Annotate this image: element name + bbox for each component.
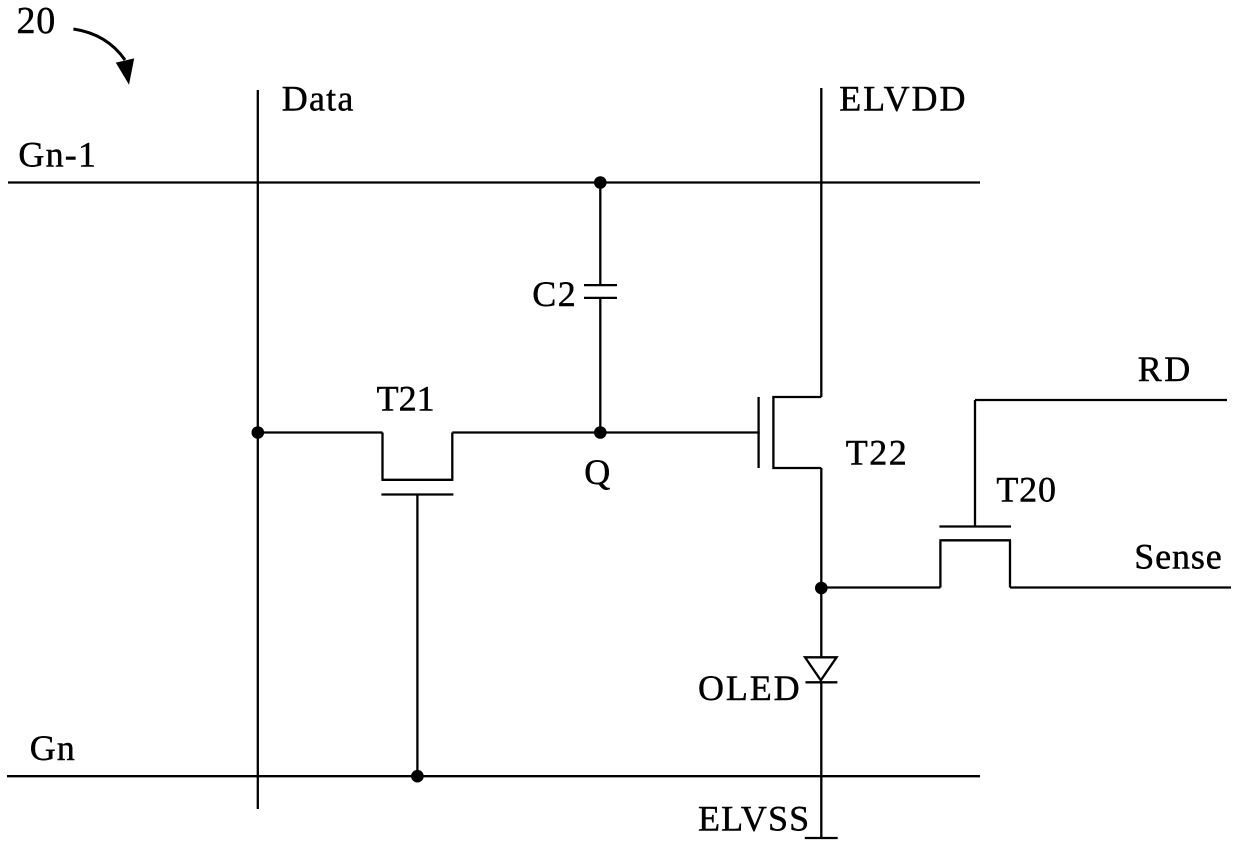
wire RD (975, 399, 1227, 401)
svg-text:Q: Q (584, 452, 610, 492)
wire Data to T21 (258, 431, 383, 433)
svg-text:ELVDD: ELVDD (839, 78, 967, 118)
svg-text:20: 20 (17, 0, 57, 42)
transistor T21 channel (381, 433, 453, 480)
wire ELVDD lower (820, 468, 822, 588)
junction dot Gn-1/C2 (594, 176, 607, 189)
wire Sense (1010, 586, 1231, 588)
transistor T20 gate bar (939, 525, 1011, 527)
diode OLED cathode bar (806, 681, 838, 683)
junction dot anode (815, 582, 828, 595)
transistor T22 gate bar (757, 397, 759, 468)
junction dot Gn/T21 gate (411, 770, 424, 783)
wire anode (820, 588, 822, 657)
wire T21 to Q (452, 431, 600, 433)
wire cathode to ELVSS (820, 682, 822, 838)
svg-text:Gn: Gn (30, 728, 76, 768)
wire Data (257, 90, 259, 809)
wire Gn (7, 775, 980, 777)
wire ELVDD upper (820, 88, 822, 397)
junction dot Data row (251, 426, 264, 439)
svg-text:RD: RD (1138, 349, 1193, 389)
diode OLED triangle (805, 657, 837, 680)
terminal ELVSS bar (805, 837, 838, 839)
wire T20 gate to RD (974, 400, 976, 527)
node Q dot (594, 426, 607, 439)
wire Q to T22 gate (600, 431, 759, 433)
capacitor C2 (584, 285, 617, 298)
arrow leader (73, 29, 134, 85)
svg-text:T20: T20 (996, 470, 1056, 510)
svg-text:OLED: OLED (698, 668, 802, 708)
svg-text:Data: Data (282, 79, 355, 119)
transistor T22 channel (773, 397, 821, 468)
svg-text:C2: C2 (532, 274, 577, 314)
wire T21 gate to Gn (416, 495, 418, 777)
svg-text:Gn-1: Gn-1 (18, 134, 97, 174)
svg-text:T21: T21 (377, 378, 435, 418)
svg-text:ELVSS: ELVSS (698, 799, 810, 839)
svg-text:T22: T22 (846, 433, 909, 473)
wire C2 top (599, 183, 601, 286)
svg-text:Sense: Sense (1134, 537, 1223, 577)
wire anode to T20 (821, 586, 940, 588)
transistor T20 channel (939, 540, 1011, 587)
transistor T21 gate bar (381, 493, 453, 495)
wire Gn-1 (8, 181, 980, 183)
wire C2 bottom (599, 298, 601, 433)
